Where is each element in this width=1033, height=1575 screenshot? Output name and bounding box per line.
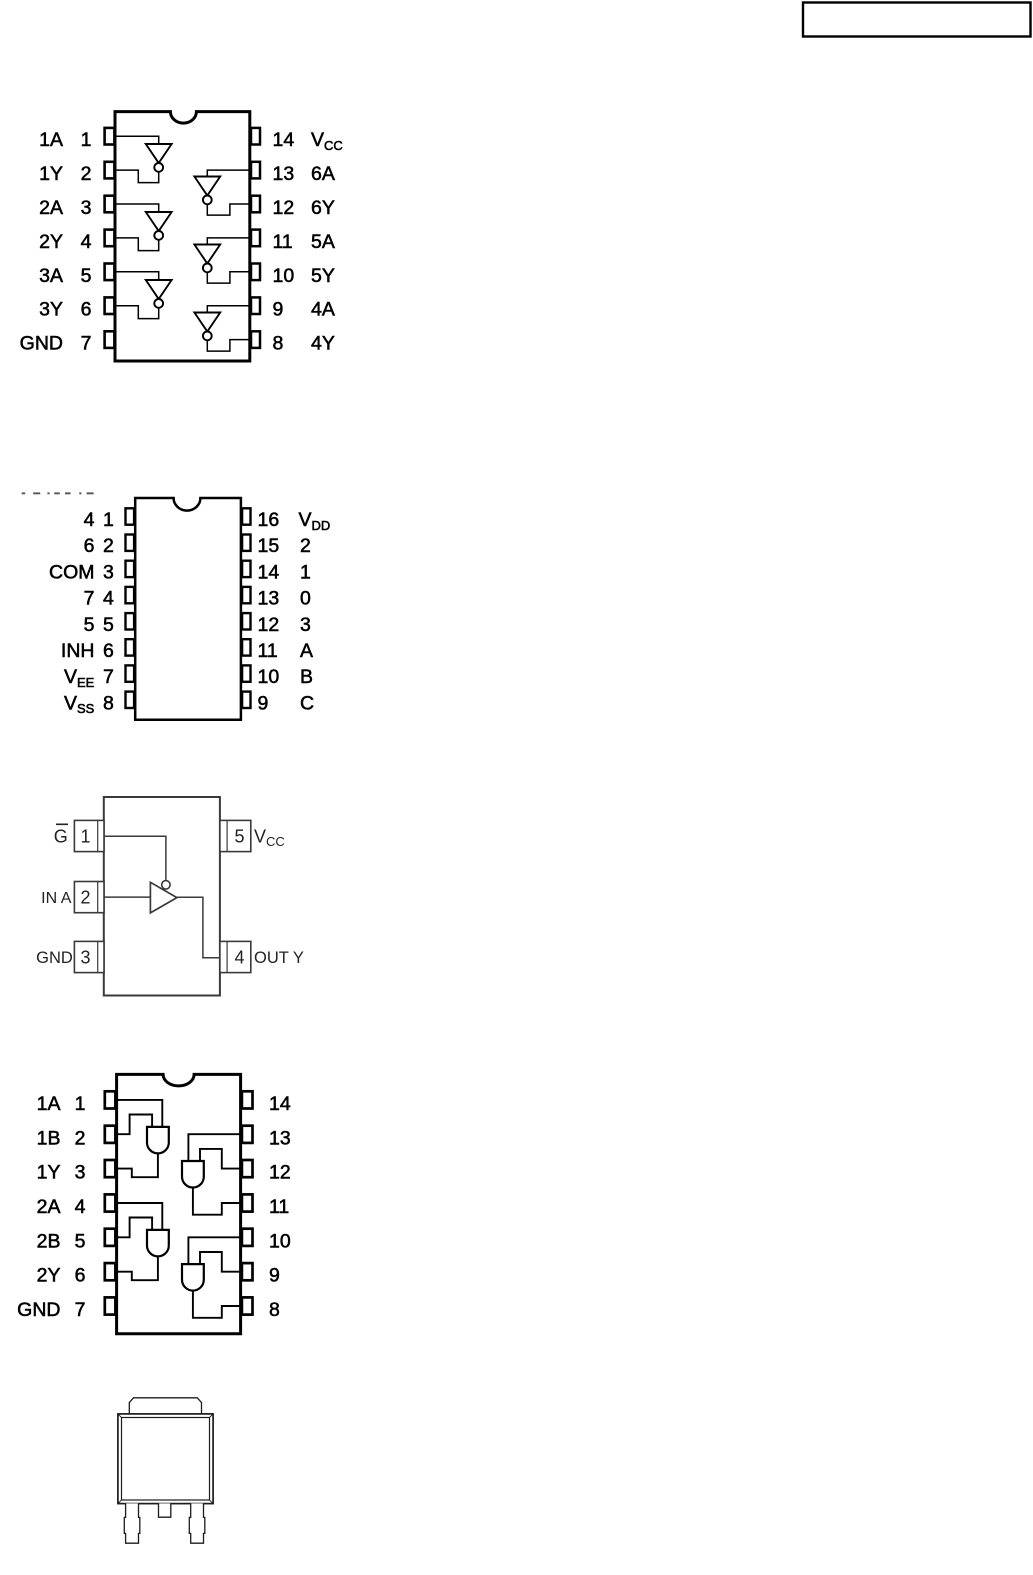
svg-text:5Y: 5Y <box>311 265 335 287</box>
svg-text:1: 1 <box>81 129 92 151</box>
pin 5 (3A) of U1 <box>105 264 115 281</box>
svg-text:GND: GND <box>36 949 73 967</box>
svg-text:4: 4 <box>103 588 114 610</box>
svg-text:2: 2 <box>300 535 311 557</box>
svg-text:VEE: VEE <box>64 666 95 690</box>
svg-text:2A: 2A <box>37 1196 61 1218</box>
svg-text:1Y: 1Y <box>37 1162 61 1184</box>
svg-text:3Y: 3Y <box>39 299 63 321</box>
wire: input pin to inverter U1-6 <box>207 306 250 313</box>
IC U3 5-pin package body <box>104 797 220 996</box>
svg-text:2: 2 <box>81 163 92 185</box>
AND gate U4-2 <box>147 1230 169 1256</box>
svg-text:13: 13 <box>269 1127 291 1149</box>
inverter U1-4 bubble <box>203 196 212 205</box>
IC U2 16-pin DIP package body <box>135 498 241 720</box>
svg-text:7: 7 <box>81 333 92 355</box>
pin 11 (5A) of U1 <box>251 230 260 247</box>
pin 6 (INH) of U2 <box>126 639 135 655</box>
svg-text:12: 12 <box>258 614 280 636</box>
svg-text:14: 14 <box>258 561 280 583</box>
wire: pin B to gate U4-3 (step) <box>200 1149 241 1169</box>
pin 2 (1B) of U4 <box>105 1126 116 1143</box>
inverter gate U1-4 (triangle) <box>194 177 220 196</box>
inverter U1-1 bubble <box>154 163 163 172</box>
svg-text:8: 8 <box>103 692 114 714</box>
wire: input pin to inverter U1-5 <box>207 238 250 245</box>
wire: gate U4-4 output to pin Y <box>193 1291 241 1318</box>
wire: pin A to gate U4-2 <box>117 1203 163 1230</box>
pin 7 (VEE) of U2 <box>126 665 135 681</box>
wire: inverter U1-1 output to pin <box>115 170 159 183</box>
IC U1 hex inverter DIP-14 package body <box>115 112 250 361</box>
pin 1 (1A) of U4 <box>105 1091 116 1108</box>
inverter gate U1-6 (triangle) <box>194 313 220 332</box>
wire: input from pin 2 to buffer <box>104 896 151 898</box>
pin 8 of U4 <box>242 1297 253 1314</box>
svg-text:14: 14 <box>269 1093 291 1115</box>
svg-text:C: C <box>300 692 314 714</box>
transistor Q1 DPAK tab <box>129 1398 201 1414</box>
pin 1 (4) of U2 <box>126 508 135 524</box>
wire: gate U4-2 output to pin Y <box>117 1256 158 1280</box>
wire: enable from pin 1 to bubble <box>104 836 166 880</box>
svg-text:1: 1 <box>80 826 90 846</box>
pin 15 (2) of U2 <box>242 535 250 551</box>
inverter gate U1-5 (triangle) <box>194 245 220 264</box>
pin 12 (3) of U2 <box>242 613 250 629</box>
svg-text:4Y: 4Y <box>311 333 335 355</box>
svg-text:OUT Y: OUT Y <box>254 949 304 967</box>
inverter U1-6 bubble <box>203 332 212 341</box>
inverter gate U1-2 (triangle) <box>146 212 172 231</box>
svg-text:4: 4 <box>234 947 244 967</box>
pin 10 of U4 <box>242 1229 253 1246</box>
pin 7 (GND) of U1 <box>105 331 115 348</box>
wire: inverter U1-4 output to pin <box>207 204 250 215</box>
pin 11 of U4 <box>242 1194 253 1211</box>
svg-text:13: 13 <box>258 588 280 610</box>
wire: pin B to gate U4-4 (step) <box>200 1252 241 1272</box>
svg-text:3: 3 <box>75 1162 86 1184</box>
pin 1 of U3 <box>74 820 104 851</box>
svg-text:6: 6 <box>81 299 92 321</box>
svg-text:2B: 2B <box>37 1230 61 1252</box>
pin 7 (GND) of U4 <box>105 1297 116 1314</box>
svg-text:11: 11 <box>269 1196 289 1218</box>
svg-text:2Y: 2Y <box>37 1265 61 1287</box>
pin 3 (1Y) of U4 <box>105 1160 116 1177</box>
svg-text:VDD: VDD <box>299 509 331 533</box>
wire: pin B to gate U4-1 (step) <box>117 1115 153 1135</box>
svg-text:G: G <box>54 826 68 846</box>
wire: gate U4-3 output to pin Y <box>193 1188 241 1215</box>
svg-text:3: 3 <box>300 614 311 636</box>
svg-text:5A: 5A <box>311 231 335 253</box>
svg-text:VCC: VCC <box>311 129 343 153</box>
lead 1 of Q1 (left) <box>124 1503 140 1543</box>
svg-text:INH: INH <box>61 640 95 662</box>
inverter U1-5 bubble <box>203 264 212 273</box>
pin 4 (2Y) of U1 <box>105 230 115 247</box>
buffer gate U3 (triangle) <box>150 882 177 913</box>
transistor Q1 DPAK body outer <box>118 1414 213 1504</box>
svg-text:4A: 4A <box>311 299 335 321</box>
pin 2 (1Y) of U1 <box>105 162 115 179</box>
pin 6 (3Y) of U1 <box>105 297 115 314</box>
svg-text:11: 11 <box>258 640 278 662</box>
pin 5 (5) of U2 <box>126 613 135 629</box>
svg-text:12: 12 <box>273 197 295 219</box>
wire: pin A to gate U4-4 <box>188 1237 240 1264</box>
svg-text:2: 2 <box>103 535 114 557</box>
svg-text:10: 10 <box>258 666 280 688</box>
pin 13 (0) of U2 <box>242 587 250 603</box>
inverter gate U1-1 (triangle) <box>146 144 172 163</box>
svg-text:6: 6 <box>75 1265 86 1287</box>
svg-text:12: 12 <box>269 1162 291 1184</box>
pin 12 (6Y) of U1 <box>251 196 260 213</box>
svg-text:7: 7 <box>103 666 114 688</box>
pin 10 (B) of U2 <box>242 665 250 681</box>
wire: inverter U1-2 output to pin <box>115 238 159 251</box>
svg-text:2: 2 <box>80 887 90 907</box>
svg-text:15: 15 <box>258 535 280 557</box>
transistor Q1 DPAK body inner <box>122 1418 210 1501</box>
svg-text:1A: 1A <box>39 129 63 151</box>
svg-text:7: 7 <box>84 588 95 610</box>
wire: pin A to gate U4-3 <box>188 1134 240 1161</box>
svg-text:7: 7 <box>75 1299 86 1321</box>
pin 12 of U4 <box>242 1160 253 1177</box>
wire: gate U4-1 output to pin Y <box>117 1153 158 1177</box>
svg-text:2Y: 2Y <box>39 231 63 253</box>
pin 11 (A) of U2 <box>242 639 250 655</box>
svg-text:VSS: VSS <box>64 692 95 716</box>
svg-text:1A: 1A <box>37 1093 61 1115</box>
pin 5 of U3 <box>220 820 251 851</box>
svg-text:GND: GND <box>20 333 63 355</box>
pin 3 (COM) of U2 <box>126 561 135 577</box>
wire: input pin to inverter U1-4 <box>207 170 250 176</box>
inverter U1-3 bubble <box>154 299 163 308</box>
inverter U1-2 bubble <box>154 231 163 240</box>
svg-text:2A: 2A <box>39 197 63 219</box>
svg-text:6Y: 6Y <box>311 197 335 219</box>
svg-text:5: 5 <box>84 614 95 636</box>
pin 3 (2A) of U1 <box>105 196 115 213</box>
pin 14 (1) of U2 <box>242 561 250 577</box>
svg-text:8: 8 <box>273 333 284 355</box>
svg-text:4: 4 <box>75 1196 86 1218</box>
svg-text:11: 11 <box>273 231 293 253</box>
clipped text fragment (bottom sliver of part number) <box>22 492 26 494</box>
AND gate U4-4 <box>182 1264 204 1291</box>
pin 4 (7) of U2 <box>126 587 135 603</box>
pin 2 of U3 <box>74 882 104 913</box>
pin 2 (6) of U2 <box>126 535 135 551</box>
wire: input pin to inverter U1-3 <box>115 272 159 280</box>
wire: input pin to inverter U1-2 <box>115 204 159 212</box>
wire: inverter U1-6 output to pin <box>207 340 250 352</box>
pin 16 (VDD) of U2 <box>242 508 250 524</box>
pin 9 (C) of U2 <box>242 692 250 708</box>
overline of G <box>56 823 68 825</box>
svg-text:A: A <box>300 640 313 662</box>
svg-text:8: 8 <box>269 1299 280 1321</box>
svg-text:0: 0 <box>300 588 311 610</box>
pin 6 (2Y) of U4 <box>105 1263 116 1280</box>
svg-text:1: 1 <box>300 561 311 583</box>
svg-text:4: 4 <box>81 231 92 253</box>
pin 4 (2A) of U4 <box>105 1194 116 1211</box>
lead 3 of Q1 (right) <box>189 1503 205 1543</box>
wire: inverter U1-5 output to pin <box>207 272 250 283</box>
svg-text:5: 5 <box>103 614 114 636</box>
svg-text:6A: 6A <box>311 163 335 185</box>
enable bubble on buffer <box>162 881 170 889</box>
body corner ticks <box>118 1414 213 1503</box>
pin 14 of U4 <box>242 1091 253 1108</box>
wire: pin B to gate U4-2 (step) <box>117 1218 153 1238</box>
AND gate U4-1 <box>147 1127 169 1154</box>
svg-text:VCC: VCC <box>254 826 285 849</box>
pin 9 of U4 <box>242 1263 253 1280</box>
pin 3 of U3 <box>74 941 104 972</box>
svg-text:1: 1 <box>75 1093 86 1115</box>
svg-text:16: 16 <box>258 509 280 531</box>
inverter gate U1-3 (triangle) <box>146 280 172 299</box>
svg-text:GND: GND <box>17 1299 60 1321</box>
svg-text:6: 6 <box>103 640 114 662</box>
pin 1 (1A) of U1 <box>105 128 115 145</box>
wire: buffer output to pin 4 <box>177 897 220 958</box>
svg-text:3: 3 <box>103 561 114 583</box>
svg-text:14: 14 <box>273 129 295 151</box>
pin 5 (2B) of U4 <box>105 1229 116 1246</box>
svg-text:1Y: 1Y <box>39 163 63 185</box>
svg-text:B: B <box>300 666 313 688</box>
pin 13 of U4 <box>242 1126 253 1143</box>
pin 4 of U3 <box>220 941 251 972</box>
svg-text:2: 2 <box>75 1127 86 1149</box>
note box (empty revision box, top right) <box>803 3 1031 37</box>
svg-text:3A: 3A <box>39 265 63 287</box>
svg-text:9: 9 <box>273 299 284 321</box>
svg-text:9: 9 <box>258 692 269 714</box>
wire: input pin to inverter U1-1 <box>115 136 159 144</box>
svg-text:13: 13 <box>273 163 295 185</box>
svg-text:COM: COM <box>49 561 95 583</box>
IC U4 quad gate DIP-14 package body <box>117 1074 241 1333</box>
pin 9 (4A) of U1 <box>251 297 260 314</box>
svg-text:1: 1 <box>103 509 114 531</box>
pin 10 (5Y) of U1 <box>251 264 260 281</box>
lead 2 of Q1 (center stub) <box>159 1503 171 1517</box>
pin 8 (VSS) of U2 <box>126 692 135 708</box>
svg-text:5: 5 <box>75 1230 86 1252</box>
pin 14 (VCC) of U1 <box>251 128 260 145</box>
pin 13 (6A) of U1 <box>251 162 260 179</box>
svg-text:1B: 1B <box>37 1127 61 1149</box>
svg-text:5: 5 <box>234 826 244 846</box>
svg-text:10: 10 <box>269 1230 291 1252</box>
AND gate U4-3 <box>182 1161 204 1188</box>
svg-text:6: 6 <box>84 535 95 557</box>
svg-text:3: 3 <box>81 197 92 219</box>
svg-text:5: 5 <box>81 265 92 287</box>
svg-text:9: 9 <box>269 1265 280 1287</box>
pin 8 (4Y) of U1 <box>251 331 260 348</box>
svg-text:IN A: IN A <box>41 890 72 907</box>
wire: pin A to gate U4-1 <box>117 1100 163 1127</box>
svg-text:3: 3 <box>80 947 90 967</box>
svg-text:4: 4 <box>84 509 95 531</box>
wire: inverter U1-3 output to pin <box>115 306 159 319</box>
svg-text:10: 10 <box>273 265 295 287</box>
